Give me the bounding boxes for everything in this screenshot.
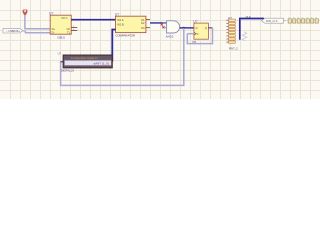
right pin stubs: [146, 19, 150, 21]
svg-text:D-: D-: [52, 31, 55, 35]
svg-text:Configurable Digital IO: Configurable Digital IO: [71, 56, 98, 60]
svg-text:[1..0]: [1..0]: [102, 61, 109, 65]
wire U2 to sheet symbol entry: [112, 30, 115, 62]
wire RN rail to port: [240, 19, 264, 40]
svg-text:O2: O2: [141, 21, 145, 25]
svg-text:CLK: CLK: [246, 15, 251, 19]
Q stub: [208, 27, 212, 29]
svg-text:U?: U?: [49, 12, 54, 16]
svg-text:DIGITAL_IO: DIGITAL_IO: [61, 69, 74, 73]
AND gate: [161, 21, 180, 39]
svg-text:TL: TL: [67, 31, 71, 35]
resistor network RN: [226, 16, 238, 51]
port tail right: [284, 20, 286, 22]
sheet background: [0, 0, 320, 99]
long wire junction to sheet entry: [61, 28, 184, 86]
IC U2 (comparator): [115, 13, 150, 38]
left pin ticks: [226, 20, 228, 42]
wire gate to U3: [180, 27, 194, 29]
ghost resistor (faint): [242, 32, 247, 41]
right pin stubs: [71, 26, 77, 28]
svg-text:Q: Q: [205, 26, 207, 30]
svg-text:AND2: AND2: [166, 35, 174, 39]
svg-text:D+: D+: [52, 27, 56, 31]
svg-text:O3: O3: [141, 26, 145, 30]
svg-text:IF+: IF+: [16, 29, 20, 33]
svg-text:LK: LK: [274, 19, 277, 23]
C stub: [187, 33, 194, 35]
svg-text:VO C: VO C: [61, 16, 68, 20]
svg-text:U?: U?: [115, 13, 119, 17]
wire U2 to AND gate: [150, 22, 167, 24]
flip-flop U3: [187, 19, 212, 44]
svg-text:U?: U?: [58, 52, 62, 56]
svg-text:C: C: [197, 32, 199, 36]
svg-text:USB11: USB11: [57, 36, 65, 39]
svg-text:IN2 B: IN2 B: [117, 23, 124, 27]
feedback wire Q to C: [187, 28, 212, 44]
port right: [262, 18, 286, 23]
port tail: [23, 30, 26, 32]
svg-text:IN1 A: IN1 A: [117, 18, 124, 22]
sheet symbol Configurable Digital IO: [58, 52, 113, 73]
power port VCC: [23, 9, 28, 15]
IC U1 (USB transceiver): [49, 12, 77, 40]
sheet entry stub left: [61, 61, 64, 63]
svg-text:COMPARATOR: COMPARATOR: [115, 33, 135, 37]
svg-text:U?: U?: [193, 19, 197, 23]
port USB (left): [3, 28, 25, 33]
svg-text:D: D: [196, 26, 198, 30]
svg-text:dANT: dANT: [94, 61, 102, 65]
clock triangle: [194, 32, 196, 35]
svg-text:CK: CK: [66, 27, 70, 31]
svg-text:RN?_2: RN?_2: [229, 46, 238, 50]
no-ERC markers: [161, 23, 163, 25]
junction: [183, 27, 185, 29]
wire U1 to U2: [71, 19, 115, 21]
header pads (7 squares): [288, 18, 318, 23]
wire port to U1 lower-left pin: [25, 31, 50, 33]
inner harness box: [64, 60, 111, 65]
wire VCC to U1 upper-left pin: [25, 15, 50, 29]
